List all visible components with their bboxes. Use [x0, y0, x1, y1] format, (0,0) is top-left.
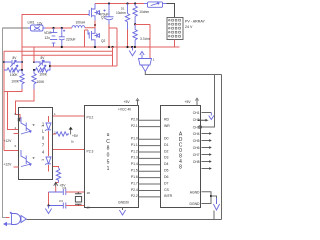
- svg-text:100K: 100K: [37, 80, 46, 84]
- current transducer: [139, 52, 155, 72]
- node dot crystal gnd: [47, 204, 49, 206]
- power +5V 8051: [124, 99, 140, 106]
- CH1 stub with +5V arrow: [202, 113, 214, 120]
- svg-text:1: 1: [107, 166, 110, 172]
- svg-text:D0: D0: [164, 137, 169, 141]
- svg-text:LM1: LM1: [28, 21, 35, 25]
- node dot 220uF top: [52, 27, 54, 29]
- svg-text:CH8: CH8: [193, 160, 200, 164]
- wire: divider2 output to driver: [16, 89, 35, 119]
- capacitor 470uF: [99, 4, 114, 25]
- svg-text:+5V: +5V: [124, 100, 131, 104]
- zener D2 driver top: [42, 116, 52, 172]
- wire: driver pin3 stub: [53, 167, 59, 168]
- svg-text:P2.1: P2.1: [131, 124, 138, 128]
- svg-text:P1.0: P1.0: [131, 137, 138, 141]
- transistor Q1 MOSFET high-side: [88, 4, 105, 21]
- svg-text:+12V: +12V: [4, 163, 13, 167]
- wire: sense tap to transducer: [135, 25, 150, 59]
- resistor 100K divider left: [11, 70, 24, 89]
- CH no-connect stub 9: [202, 167, 212, 170]
- wire: gate drive MOSFET Q1: [22, 15, 88, 71]
- pin label GND20: [118, 201, 129, 205]
- driver IC box: [19, 108, 53, 180]
- svg-text:5: 5: [107, 159, 110, 165]
- ground arrow ADC: [211, 196, 220, 210]
- 8051 vertical label: [106, 132, 110, 172]
- crystal X1: [75, 192, 82, 206]
- svg-text:GND20: GND20: [118, 201, 129, 205]
- svg-text:P3.2: P3.2: [87, 115, 94, 119]
- pin number 4: [15, 126, 17, 130]
- pin label VCC 40: [118, 107, 131, 111]
- driver pin junction blob: [18, 118, 20, 122]
- wire: driver to P2.3: [53, 149, 85, 151]
- CH no-connect stub 5: [202, 139, 212, 142]
- svg-text:P2.0: P2.0: [131, 118, 138, 122]
- CH3 pin circle to transducer: [199, 126, 202, 129]
- ground arrow 8051: [119, 208, 125, 216]
- node dot divider2 top: [49, 65, 51, 67]
- lamp LM1 12V: [28, 21, 46, 32]
- resistor R2 10ohm: [133, 4, 149, 25]
- wire: 470uF branch to divider sense: [109, 28, 117, 66]
- svg-text:10ohm: 10ohm: [116, 11, 126, 15]
- svg-text:P1.4: P1.4: [131, 162, 138, 166]
- wire: Q1 source to Q2 drain: [94, 21, 96, 34]
- resistor R3 3.7ohm: [133, 24, 151, 47]
- wire: inductor to mid node: [85, 27, 95, 30]
- wire: +5V node down: [48, 192, 50, 206]
- ADC left pin labels: [164, 118, 173, 199]
- wire: transducer output run: [145, 72, 221, 75]
- svg-text:12v: 12v: [45, 36, 51, 40]
- svg-text:DGND: DGND: [190, 202, 201, 206]
- pin number 6: [15, 112, 17, 116]
- resistor pull to +5V lower: [56, 168, 60, 183]
- svg-text:u: u: [107, 132, 110, 138]
- battery 8V reference left: [4, 56, 22, 67]
- svg-text:CH4: CH4: [193, 132, 200, 136]
- wire: gate drive MOSFET Q2: [85, 30, 89, 47]
- node dot pot1 wiper: [21, 69, 23, 71]
- pin stub +12V upper: [4, 134, 19, 144]
- svg-text:18: 18: [87, 191, 91, 195]
- svg-text:CH1: CH1: [193, 111, 200, 115]
- wire: battery rail (lamp to converter): [46, 27, 73, 29]
- transistor Q4 driver bottom: [21, 150, 35, 167]
- wire: AGND: [202, 192, 212, 196]
- wire: DGND: [202, 196, 212, 204]
- wire: left vertical rail: [3, 28, 7, 218]
- pin label P3.2: [87, 115, 94, 119]
- pin number 2: [54, 130, 56, 134]
- zener D3 driver bottom: [42, 157, 52, 165]
- node dot pot2 wiper: [33, 69, 35, 71]
- wire: right edge drop to bottom rail: [221, 75, 223, 220]
- input arrow terminal: [3, 222, 11, 227]
- wire: probe to PV array: [167, 4, 175, 18]
- svg-text:Q2: Q2: [101, 39, 105, 43]
- transistor Q3 driver top: [21, 117, 35, 134]
- node dot 470uF top: [108, 2, 110, 4]
- svg-text:D1: D1: [164, 143, 169, 147]
- resistor pull-up to +5V: [53, 127, 79, 143]
- wire: PV- to ground rail: [174, 40, 176, 48]
- svg-text:INTR: INTR: [164, 194, 173, 198]
- svg-text:C3: C3: [59, 199, 63, 203]
- node dot R2 top: [134, 2, 136, 4]
- svg-text:P2.2: P2.2: [131, 194, 138, 198]
- ADC0848 box: [161, 106, 201, 208]
- svg-text:CH6: CH6: [193, 146, 200, 150]
- transistor Q2 MOSFET low-side: [88, 29, 105, 48]
- wire: divider1 output to driver: [4, 89, 22, 130]
- wire: bottom ground rail: [27, 219, 222, 221]
- wire: rail to ADC ground arrow: [213, 211, 215, 220]
- pin stub +12V lower: [4, 163, 19, 168]
- svg-text:VDC: VDC: [44, 31, 52, 35]
- CH2 stub: [198, 119, 207, 121]
- battery 8V reference right: [34, 56, 50, 67]
- node dot tap: [61, 27, 63, 29]
- svg-text:P2.4: P2.4: [131, 188, 138, 192]
- svg-text:D3: D3: [164, 156, 169, 160]
- svg-text:D6: D6: [164, 175, 169, 179]
- wire: rail 12V sense: [4, 47, 113, 151]
- svg-text:P1.5: P1.5: [131, 169, 138, 173]
- svg-text:+5V: +5V: [72, 134, 79, 138]
- inductor 100uH: [72, 21, 86, 28]
- wire: top rail PV+: [95, 3, 144, 5]
- svg-text:10ohm: 10ohm: [139, 10, 149, 14]
- node dot AGND/DGND: [210, 195, 212, 197]
- svg-text:P1.1: P1.1: [131, 143, 138, 147]
- node dot mid: [94, 24, 96, 26]
- capacitor C3: [49, 199, 86, 209]
- CH no-connect stub 6: [202, 146, 212, 149]
- logic gate bottom left: [6, 212, 26, 225]
- svg-text:8: 8: [179, 165, 182, 171]
- wire: 470uF bottom to gnd rail: [108, 25, 110, 48]
- svg-text:100K: 100K: [39, 73, 48, 77]
- svg-text:WR: WR: [164, 124, 170, 128]
- svg-text:CH5: CH5: [193, 139, 200, 143]
- svg-text:0: 0: [107, 153, 110, 159]
- svg-text:CH7: CH7: [193, 153, 200, 157]
- svg-text:220uF: 220uF: [66, 38, 76, 42]
- svg-text:100K: 100K: [11, 80, 20, 84]
- potentiometer RV1 100K: [4, 65, 22, 77]
- pin label P2.3: [87, 149, 94, 153]
- wire: R1 bottom to gnd rail: [127, 30, 129, 48]
- wire: driver pin1 to P3.2: [53, 115, 85, 117]
- capacitor 220uF: [59, 28, 76, 47]
- svg-text:P1.2: P1.2: [131, 149, 138, 153]
- svg-text:+VCC 40: +VCC 40: [118, 107, 131, 111]
- ADC right pin labels: [190, 111, 201, 206]
- bus wires 8051 to ADC: [139, 120, 162, 197]
- svg-text:100uH: 100uH: [76, 21, 86, 25]
- resistor 100K divider right: [32, 70, 45, 89]
- svg-text:C: C: [106, 139, 110, 145]
- 8051 right pin labels: [131, 118, 138, 199]
- svg-text:D2: D2: [164, 149, 169, 153]
- svg-text:3.7ohm: 3.7ohm: [140, 37, 151, 41]
- svg-text:D7: D7: [164, 181, 169, 185]
- svg-text:PV - ARRAY: PV - ARRAY: [185, 19, 206, 23]
- svg-text:470uF: 470uF: [99, 13, 109, 17]
- wire: sense drop to ADC CH: [201, 75, 214, 128]
- ammeter probe: [144, 2, 167, 7]
- wire: divider2 sense line: [50, 65, 117, 67]
- pin number 18: [87, 191, 91, 195]
- ground arrow crystal: [45, 206, 51, 214]
- svg-text:D4: D4: [164, 162, 169, 166]
- ground arrow on rail: [129, 47, 136, 56]
- battery VDC 12V: [44, 28, 57, 47]
- node dots divider rails: [3, 61, 35, 63]
- svg-text:D5: D5: [164, 169, 169, 173]
- capacitor C4: [49, 186, 86, 195]
- node dots on ground rail: [61, 46, 136, 48]
- microcontroller U1 8051 box: [85, 106, 139, 208]
- CH no-connect stub 7: [202, 153, 212, 156]
- wire: rail battery sense: [22, 54, 113, 56]
- PV array panel: [167, 18, 206, 40]
- svg-text:+12V: +12V: [4, 139, 13, 143]
- svg-text:P1.3: P1.3: [131, 156, 138, 160]
- svg-text:RD: RD: [164, 118, 170, 122]
- power +5V ADC: [185, 98, 199, 106]
- svg-text:P1.6: P1.6: [131, 175, 138, 179]
- power +5V crystal area: [54, 182, 67, 192]
- svg-text:P1.7: P1.7: [131, 181, 138, 185]
- wire: divider2 top to ground rail: [33, 47, 35, 62]
- svg-text:24 V: 24 V: [185, 25, 193, 29]
- svg-text:CS: CS: [164, 188, 170, 192]
- potentiometer RV2 100K: [34, 65, 50, 77]
- CH no-connect stub 8: [202, 160, 212, 163]
- svg-text:P2.3: P2.3: [87, 149, 94, 153]
- resistor R1 10ohm: [116, 4, 130, 30]
- driver vertical label IL074: [42, 122, 45, 155]
- svg-text:100K: 100K: [10, 73, 19, 77]
- svg-text:+5V: +5V: [185, 100, 192, 104]
- svg-text:D1: D1: [121, 7, 125, 11]
- pin number 19: [87, 205, 91, 209]
- pin number 1: [54, 112, 56, 116]
- wire: converter ground rail: [23, 46, 180, 48]
- svg-text:8: 8: [107, 146, 110, 152]
- wire: lamp feed from left rail: [3, 27, 31, 29]
- svg-text:AGND: AGND: [190, 190, 200, 194]
- pin number 5: [15, 144, 17, 148]
- node dot R2/R3: [134, 23, 136, 25]
- ADC vertical label: [179, 132, 183, 171]
- CH no-connect stub 4: [202, 132, 212, 135]
- node dot R1 top: [126, 2, 128, 4]
